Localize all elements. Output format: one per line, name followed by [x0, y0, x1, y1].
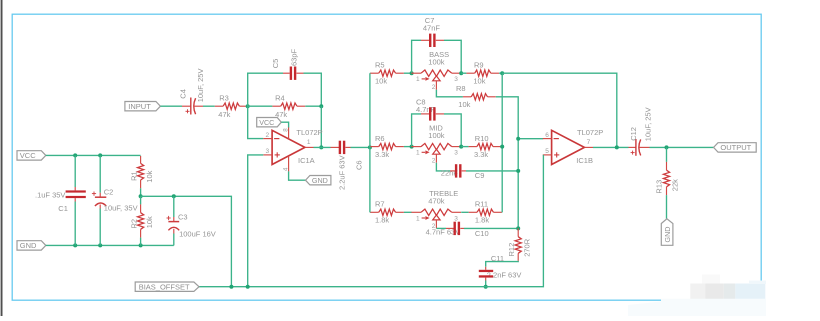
wire BASS to R9: [461, 72, 466, 74]
capacitor C7: [421, 16, 444, 47]
junction GND-C1: [73, 243, 77, 247]
svg-text:100k: 100k: [428, 131, 445, 140]
svg-text:C9: C9: [475, 171, 485, 180]
wire node to R2: [140, 196, 142, 204]
svg-text:10k: 10k: [473, 76, 485, 85]
capacitor C12: [629, 107, 653, 155]
wire C9 to summing bus: [466, 170, 518, 172]
svg-text:3: 3: [454, 215, 458, 222]
svg-text:5: 5: [545, 148, 549, 155]
svg-text:R12: R12: [507, 243, 516, 257]
svg-text:C10: C10: [475, 229, 489, 238]
svg-text:C12: C12: [629, 127, 638, 141]
blur patch: [628, 275, 820, 317]
wire feedback loop left: [248, 73, 283, 106]
junction BASS pin1: [410, 71, 414, 75]
wiper arrow: [433, 215, 440, 220]
svg-text:C5: C5: [271, 59, 280, 69]
svg-text:TL072P: TL072P: [296, 128, 322, 137]
svg-text:1.8k: 1.8k: [475, 216, 489, 225]
wire R6 to MID: [404, 146, 412, 148]
wire R5 to BASS: [404, 72, 412, 74]
wire node to R4: [248, 105, 273, 107]
op-amp IC1B: [543, 128, 603, 165]
svg-text:1: 1: [416, 215, 420, 222]
OUTPUT flag: [714, 143, 757, 152]
BIAS_OFFSET flag: [135, 282, 199, 291]
wire C7 loop left: [412, 40, 421, 73]
svg-text:R13: R13: [654, 180, 663, 194]
INPUT flag: [125, 102, 160, 111]
GND flag at output: [661, 219, 673, 246]
wire TREBLE to R11: [461, 211, 469, 213]
resistor R4: [272, 93, 305, 119]
svg-text:22k: 22k: [670, 179, 679, 191]
capacitor C1: [35, 187, 86, 213]
svg-text:1: 1: [416, 150, 420, 157]
svg-text:R11: R11: [475, 200, 488, 209]
wire R2 to GND rail: [140, 238, 142, 246]
svg-text:VCC: VCC: [20, 151, 36, 160]
wire C1 branch: [74, 155, 76, 187]
svg-text:R6: R6: [375, 134, 385, 143]
wire R9 to feedback bus: [499, 72, 502, 74]
resistor R6: [370, 134, 404, 159]
op-amp IC1A: [263, 127, 322, 171]
wire R11 to feedback bus: [501, 211, 503, 213]
VCC supply flag: [17, 151, 46, 160]
svg-text:7: 7: [587, 139, 591, 146]
svg-text:100uF 16V: 100uF 16V: [179, 230, 216, 239]
junction node R3/R4: [246, 104, 250, 108]
wire C6 to input bus: [351, 146, 370, 148]
svg-text:3.3k: 3.3k: [375, 150, 389, 159]
GND flag at IC1A: [306, 176, 331, 185]
svg-text:3: 3: [266, 148, 270, 155]
resistor R5: [370, 60, 404, 85]
svg-text:100k: 100k: [428, 58, 445, 67]
svg-text:.1uF 35V: .1uF 35V: [35, 190, 65, 199]
wire to IC1B output: [502, 73, 617, 147]
wire feedback loop right: [304, 73, 322, 106]
pin 4 (V-): [288, 156, 290, 172]
svg-text:10k: 10k: [375, 76, 387, 85]
wire R10 to feedback bus: [500, 146, 503, 148]
wire R8 to summing bus: [496, 97, 518, 229]
svg-text:TL072P: TL072P: [577, 128, 603, 137]
wire bias net / BIAS_OFFSET: [199, 155, 543, 287]
svg-text:INPUT: INPUT: [128, 102, 151, 111]
wiper arrow: [433, 149, 440, 154]
svg-text:OUTPUT: OUTPUT: [720, 143, 751, 152]
junction R4/C5: [319, 104, 323, 108]
junction summing/pin6: [516, 137, 520, 141]
wire VCC rail: [46, 154, 141, 156]
resistor R2: [130, 204, 154, 237]
svg-text:4.7nF: 4.7nF: [416, 105, 436, 114]
capacitor C3: [167, 213, 216, 239]
wire MID wiper: [435, 154, 437, 162]
capacitor C5: [271, 48, 303, 79]
svg-text:R4: R4: [275, 93, 285, 102]
capacitor C11: [479, 254, 522, 281]
svg-text:270R: 270R: [523, 238, 532, 257]
svg-text:C3: C3: [178, 213, 188, 222]
junction MID pin1: [410, 145, 414, 149]
pin 8 (V+): [288, 127, 290, 139]
resistor R7: [370, 200, 404, 225]
svg-text:R5: R5: [375, 60, 385, 69]
junction C9/summing: [516, 169, 520, 173]
junction node-C3: [172, 194, 176, 198]
wire output to R13: [666, 147, 668, 162]
wire TREBLE wiper: [435, 220, 437, 229]
svg-text:R9: R9: [474, 60, 484, 69]
svg-text:2: 2: [266, 132, 270, 139]
junction VCC-C1: [73, 153, 77, 157]
junction MID pin3: [459, 145, 463, 149]
resistor R11: [469, 200, 502, 225]
wire C7 loop right: [444, 40, 461, 73]
wire C8 loop right: [444, 114, 461, 147]
svg-text:R1: R1: [130, 171, 139, 181]
wiper arrow: [433, 76, 440, 81]
svg-text:47nF: 47nF: [423, 24, 441, 33]
resistor R8: [456, 84, 496, 109]
svg-text:IC1B: IC1B: [576, 156, 593, 165]
capacitor C10: [426, 222, 489, 238]
wire INPUT to C4: [160, 105, 182, 107]
junction C11/bias: [484, 285, 488, 289]
svg-text:63pF: 63pF: [289, 48, 298, 66]
wire R7 to TREBLE: [404, 211, 412, 213]
wire IC1B out: [593, 146, 629, 148]
svg-text:C4: C4: [178, 89, 187, 99]
lead: [411, 72, 421, 74]
wire node to IC1A pin2: [248, 106, 264, 138]
junction bias node R1/R2: [139, 194, 143, 198]
svg-text:3: 3: [454, 150, 458, 157]
potentiometer BASS 100k: [411, 50, 461, 91]
wire C4 to R3: [203, 105, 215, 107]
resistor R10: [469, 134, 502, 159]
svg-text:10k: 10k: [458, 100, 470, 109]
resistor R12: [507, 228, 532, 261]
lead: [411, 211, 421, 213]
wire C10 to summing bus: [464, 227, 518, 229]
resistor R1: [130, 156, 154, 188]
svg-text:4: 4: [282, 167, 289, 171]
svg-text:GND: GND: [20, 241, 37, 250]
wire BASS wiper: [436, 90, 463, 97]
capacitor C9: [441, 164, 485, 180]
svg-text:10uF, 25V: 10uF, 25V: [643, 107, 652, 141]
wire R4 to IC1A output: [320, 106, 322, 147]
VCC flag at IC1A: [257, 118, 282, 127]
junction R9/feedback: [500, 71, 504, 75]
page edge bar: [1, 0, 3, 316]
junction bias/IC1A: [246, 285, 250, 289]
svg-text:2.2uF 63V: 2.2uF 63V: [337, 155, 346, 190]
junction summing/R12: [516, 226, 520, 230]
wire R12 to C11: [486, 261, 519, 267]
svg-text:6: 6: [545, 132, 549, 139]
svg-text:C2: C2: [104, 187, 114, 196]
wire C2 branch: [99, 155, 101, 192]
junction GND-C2: [98, 243, 102, 247]
wire bus to R7: [369, 211, 372, 213]
junction R10/feedback: [500, 145, 504, 149]
svg-text:R8: R8: [456, 84, 466, 93]
junction output/R13: [665, 145, 669, 149]
wire summing bus to IC1B pin6: [518, 138, 543, 140]
svg-text:8: 8: [282, 128, 289, 132]
svg-text:1: 1: [416, 76, 420, 83]
capacitor C2: [92, 187, 138, 212]
svg-text:C6: C6: [355, 160, 364, 170]
svg-text:C1: C1: [58, 204, 68, 213]
svg-text:10uF, 35V: 10uF, 35V: [104, 204, 138, 213]
junction IC1A output: [319, 145, 323, 149]
junction bias/R1R2: [229, 285, 233, 289]
wire VCC to pin 8: [281, 122, 288, 127]
svg-text:1: 1: [307, 139, 311, 146]
resistor R3: [215, 93, 248, 119]
svg-text:VCC: VCC: [259, 118, 274, 127]
svg-text:47k: 47k: [218, 110, 230, 119]
svg-text:2: 2: [432, 158, 436, 165]
capacitor C6: [331, 141, 364, 190]
potentiometer MID 100k: [411, 123, 461, 164]
svg-text:R10: R10: [475, 134, 489, 143]
wire IC1A out to C6: [314, 146, 331, 148]
resistor R9: [466, 60, 499, 85]
svg-text:10uF, 25V: 10uF, 25V: [196, 69, 205, 103]
svg-text:R2: R2: [130, 219, 139, 229]
GND supply flag: [17, 241, 46, 250]
svg-text:470k: 470k: [428, 197, 445, 206]
wire C3 branch: [173, 196, 175, 217]
wire mid feedback bus: [501, 73, 503, 212]
svg-text:1.8k: 1.8k: [375, 216, 389, 225]
wire R4 to C5 node: [305, 105, 321, 107]
svg-text:R3: R3: [219, 93, 229, 102]
junction BASS pin3: [459, 71, 463, 75]
wire bus to R5: [369, 72, 372, 74]
capacitor C4: [178, 69, 205, 115]
junction C6/input bus: [368, 145, 372, 149]
wire C12 to OUTPUT: [650, 146, 714, 148]
wire R13 to GND flag: [666, 195, 668, 219]
wire MID to R10: [461, 146, 468, 148]
wire C11 to bias net: [485, 281, 487, 287]
svg-text:2: 2: [432, 84, 436, 91]
wire R1 to node: [140, 188, 142, 196]
svg-text:IC1A: IC1A: [298, 156, 315, 165]
svg-text:R7: R7: [375, 200, 385, 209]
junction VCC-C2: [98, 153, 102, 157]
wire GND rail: [46, 244, 174, 246]
lead: [411, 146, 421, 148]
wire IC1A pin3 to bias net: [248, 155, 264, 287]
svg-text:3.3k: 3.3k: [474, 150, 488, 159]
resistor R13: [654, 162, 679, 195]
svg-text:10k: 10k: [145, 216, 154, 228]
capacitor C8: [416, 97, 444, 120]
svg-text:GND: GND: [663, 227, 672, 243]
junction GND-R2: [139, 243, 143, 247]
svg-text:GND: GND: [312, 176, 328, 185]
svg-text:BIAS_OFFSET: BIAS_OFFSET: [139, 282, 190, 291]
potentiometer TREBLE 470k: [411, 189, 461, 230]
wire bias node: [141, 196, 232, 286]
wire C8 loop left: [412, 114, 421, 147]
svg-text:3: 3: [454, 76, 458, 83]
svg-text:C11: C11: [491, 254, 504, 263]
wire tone input bus: [369, 73, 371, 212]
wire pin 4 to GND flag: [289, 171, 306, 180]
junction IC1B out/feedback: [615, 145, 619, 149]
svg-text:10k: 10k: [145, 170, 154, 182]
